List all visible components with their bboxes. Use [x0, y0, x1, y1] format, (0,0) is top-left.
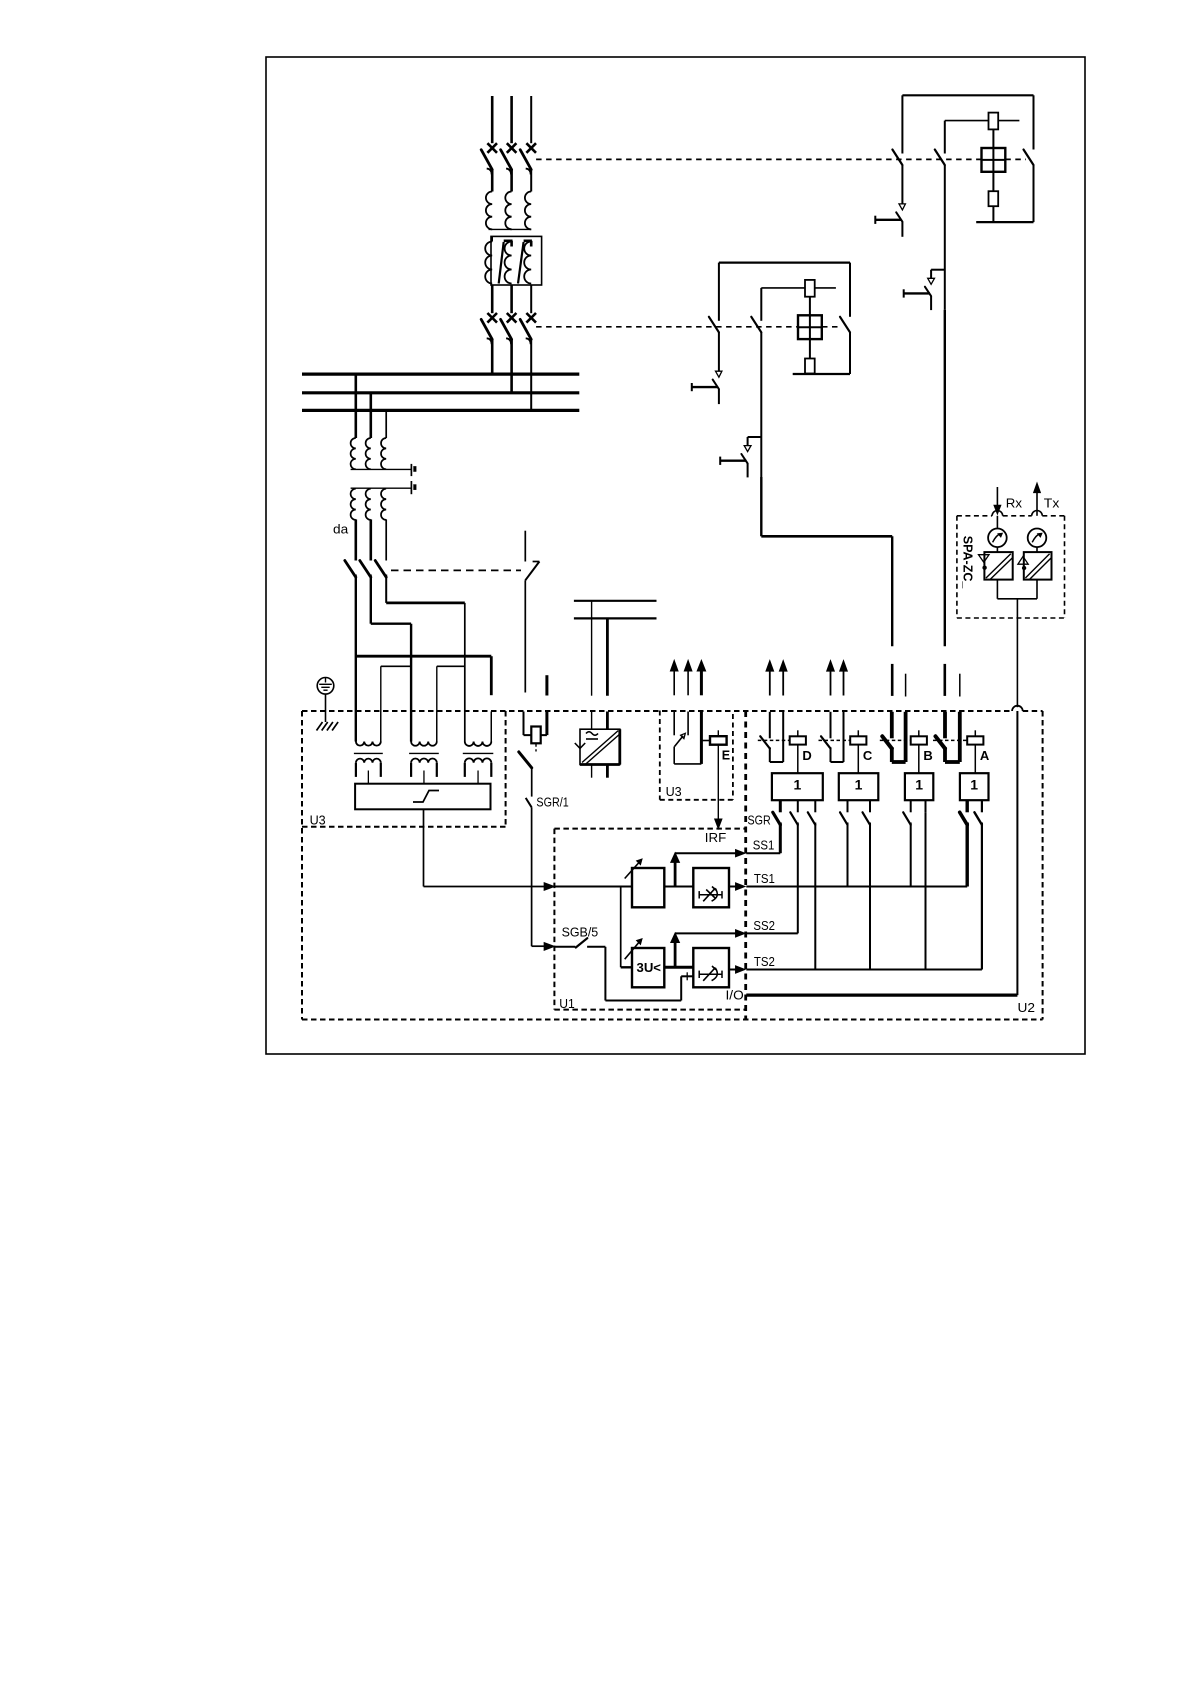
- svg-text:SGR/1: SGR/1: [536, 795, 568, 810]
- svg-text:U1: U1: [559, 996, 575, 1011]
- svg-text:Tx: Tx: [1044, 495, 1060, 510]
- svg-text:SGR: SGR: [748, 812, 771, 827]
- svg-text:C: C: [863, 748, 873, 763]
- svg-text:IRF: IRF: [705, 830, 727, 845]
- svg-text:da: da: [333, 522, 349, 537]
- svg-text:1: 1: [793, 777, 801, 793]
- svg-text:D: D: [802, 748, 811, 763]
- svg-text:I/O: I/O: [726, 987, 744, 1002]
- svg-text:U3: U3: [310, 813, 326, 828]
- svg-text:3U<: 3U<: [637, 960, 662, 975]
- svg-text:A: A: [980, 748, 990, 763]
- svg-text:SGB/5: SGB/5: [562, 924, 599, 939]
- svg-text:1: 1: [970, 777, 978, 793]
- svg-text:SPA-ZC_: SPA-ZC_: [961, 536, 976, 589]
- svg-text:1: 1: [915, 777, 923, 793]
- svg-text:Rx: Rx: [1006, 495, 1023, 510]
- svg-text:1: 1: [855, 777, 863, 793]
- svg-text:U2: U2: [1018, 1000, 1036, 1015]
- svg-text:SS1: SS1: [753, 838, 775, 853]
- svg-text:TS2: TS2: [754, 954, 775, 969]
- svg-text:B: B: [923, 748, 932, 763]
- svg-text:TS1: TS1: [754, 871, 775, 886]
- svg-text:SS2: SS2: [753, 918, 775, 933]
- svg-text:U3: U3: [666, 784, 682, 799]
- svg-text:E: E: [722, 749, 730, 763]
